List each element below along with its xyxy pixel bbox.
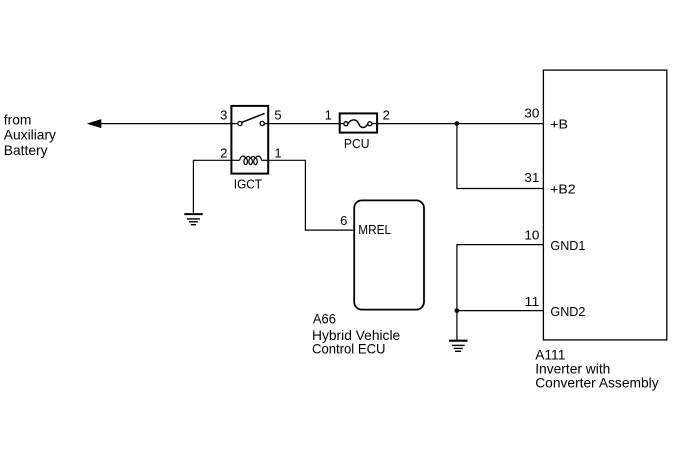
fuse left stub (340, 123, 344, 125)
svg-text:2: 2 (220, 145, 227, 160)
svg-text:5: 5 (274, 108, 281, 123)
svg-text:1: 1 (325, 107, 332, 122)
svg-text:Battery: Battery (4, 143, 48, 158)
svg-text:11: 11 (524, 294, 539, 309)
wire: GND2 (457, 310, 544, 312)
node: from Auxiliary Battery label (4, 113, 56, 158)
node: A66 Hybrid Vehicle Control ECU label (312, 311, 401, 356)
svg-text:30: 30 (524, 106, 539, 121)
wire: relay pin 1 to MREL pin 6 (268, 160, 353, 230)
wire: junction to ground (456, 311, 458, 341)
svg-text:IGCT: IGCT (234, 178, 262, 192)
relay switch contact circle right (260, 121, 264, 125)
svg-text:A66: A66 (313, 311, 336, 326)
svg-text:from: from (4, 113, 32, 128)
svg-text:+B2: +B2 (550, 182, 575, 196)
svg-text:MREL: MREL (358, 223, 391, 237)
svg-text:PCU: PCU (344, 137, 370, 151)
wire: arrow shaft to relay pin 3 (101, 123, 231, 125)
inverter A111 box (543, 70, 666, 340)
svg-text:1: 1 (274, 145, 281, 160)
MREL ECU box (354, 200, 424, 309)
wire: junction down to +B2 (457, 124, 544, 189)
svg-text:GND1: GND1 (550, 239, 585, 253)
svg-text:Control ECU: Control ECU (312, 342, 386, 357)
relay coil wire right stub (261, 159, 268, 161)
fuse contact circle left (344, 122, 348, 126)
svg-text:+B: +B (550, 117, 568, 131)
svg-text:GND2: GND2 (550, 305, 585, 319)
svg-text:Auxiliary: Auxiliary (4, 127, 56, 142)
relay switch wire left stub (231, 123, 237, 125)
junction node on +B wire (455, 121, 460, 126)
fuse PCU box (340, 113, 377, 132)
fuse right stub (372, 123, 377, 125)
svg-text:6: 6 (340, 213, 347, 228)
svg-text:3: 3 (220, 108, 227, 123)
fuse element (wave) (348, 120, 368, 128)
relay switch wire right stub (264, 123, 268, 125)
relay switch contact circle left (238, 121, 242, 125)
node: A111 Inverter with Converter Assembly label (535, 347, 659, 390)
wire: GND1 to junction (457, 245, 544, 311)
wire: relay pin 5 to fuse (268, 123, 340, 125)
ground (left, IGCT coil) (184, 214, 202, 225)
svg-text:2: 2 (383, 107, 390, 122)
wire: fuse to inverter +B (377, 123, 543, 125)
junction node on GND2 wire (455, 308, 460, 313)
svg-text:Inverter with: Inverter with (535, 361, 610, 376)
ground (right, inverter) (449, 341, 468, 352)
relay switch movable contact (diagonal) (242, 113, 265, 122)
wire: relay pin 2 to ground (193, 160, 230, 214)
fuse contact circle right (368, 122, 372, 126)
svg-text:A111: A111 (535, 347, 565, 362)
svg-text:Converter Assembly: Converter Assembly (535, 376, 659, 391)
relay coil wire left stub (231, 159, 239, 161)
svg-text:31: 31 (524, 170, 539, 185)
arrowhead to Auxiliary Battery (87, 119, 102, 128)
svg-text:10: 10 (524, 227, 539, 242)
relay coil loops (240, 156, 262, 164)
relay IGCT box (231, 106, 268, 174)
